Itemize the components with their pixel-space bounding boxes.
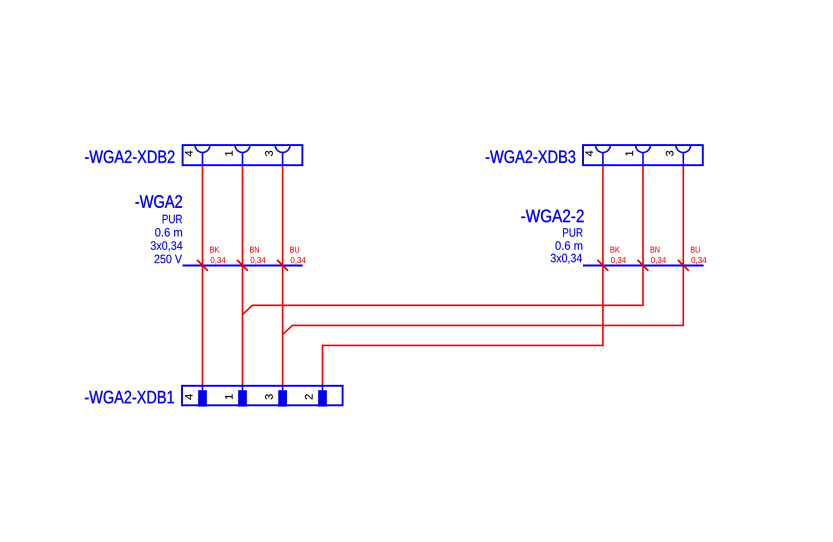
pin number 4 of -WGA2-XDB2 <box>185 151 193 157</box>
wire colour label BU of -WGA2 <box>290 247 299 253</box>
terminal 1 of -WGA2-XDB1 <box>238 386 247 407</box>
cable -WGA2 spec PUR <box>163 215 182 224</box>
cable crossing slash on wire BN of -WGA2 <box>237 260 248 271</box>
pin 3 of -WGA2-XDB3 (socket symbol) <box>676 145 691 165</box>
cable -WGA2 spec length 0.6 m <box>155 228 182 237</box>
wire BN of cable -WGA2-2 (XDB3:1 joining to XDB1:1) <box>243 165 644 314</box>
terminal 2 of -WGA2-XDB1 <box>318 386 327 407</box>
cable crossing slash on wire BU of -WGA2 <box>277 260 288 271</box>
wire gauge label 0,34 (BK of -WGA2) <box>211 257 226 264</box>
cable crossing slash on wire BK of -WGA2 <box>197 260 208 271</box>
pin number 4 of -WGA2-XDB3 <box>585 151 593 157</box>
wire gauge label 0,34 (BN of -WGA2) <box>251 257 266 264</box>
connector -WGA2-XDB3 label <box>486 150 576 163</box>
cable -WGA2 line <box>183 265 303 267</box>
pin 4 of -WGA2-XDB2 (socket symbol) <box>195 145 210 165</box>
terminal number 3 of -WGA2-XDB1 <box>265 394 273 399</box>
wire gauge label 0,34 (BU of -WGA2) <box>291 257 306 264</box>
wire colour label BN of -WGA2 <box>250 247 259 253</box>
pin 4 of -WGA2-XDB3 (socket symbol) <box>596 145 611 165</box>
cable -WGA2 spec 3x0,34 <box>151 241 183 251</box>
connector -WGA2-XDB3 outline <box>583 145 703 165</box>
wire BK of cable -WGA2-2 (XDB3:4 to XDB1:2) <box>323 165 603 386</box>
connector -WGA2-XDB2 outline <box>183 145 303 165</box>
pin 1 of -WGA2-XDB3 (socket symbol) <box>636 145 651 165</box>
cable -WGA2-2 spec PUR <box>563 228 582 237</box>
cable -WGA2-2 name label <box>521 210 583 223</box>
cable -WGA2 name label <box>135 195 182 208</box>
pin 1 of -WGA2-XDB2 (socket symbol) <box>235 145 250 165</box>
terminal number 1 of -WGA2-XDB1 <box>225 394 233 399</box>
terminal number 4 of -WGA2-XDB1 <box>185 394 193 400</box>
terminal 4 of -WGA2-XDB1 <box>198 386 207 407</box>
cable -WGA2-2 spec 3x0,34 <box>551 254 582 264</box>
wire BU of cable -WGA2-2 (XDB3:3 joining to XDB1:3) <box>283 165 684 334</box>
pin number 1 of -WGA2-XDB3 <box>626 151 634 156</box>
connector -WGA2-XDB2 label <box>85 150 174 163</box>
wire colour label BK of -WGA2 <box>210 247 219 253</box>
pin number 1 of -WGA2-XDB2 <box>225 151 233 156</box>
wire colour label BK of -WGA2-2 <box>611 247 620 253</box>
wire gauge label 0,34 (BU of -WGA2-2) <box>691 257 706 264</box>
pin 3 of -WGA2-XDB2 (socket symbol) <box>275 145 290 165</box>
wire BK of cable -WGA2 (XDB2:4 to XDB1:4) <box>202 165 204 386</box>
cable -WGA2 spec 250 V <box>155 255 182 264</box>
cable -WGA2-2 spec length 0.6 m <box>555 241 582 250</box>
cable -WGA2-2 line <box>583 265 704 267</box>
wire BN of cable -WGA2 (XDB2:1 to XDB1:1) <box>242 165 244 386</box>
terminal number 2 of -WGA2-XDB1 <box>305 394 313 399</box>
wire gauge label 0,34 (BK of -WGA2-2) <box>611 257 626 264</box>
pin number 3 of -WGA2-XDB3 <box>666 151 674 156</box>
terminal 3 of -WGA2-XDB1 <box>278 386 287 407</box>
cable crossing slash on wire BN of -WGA2-2 <box>638 260 649 271</box>
pin number 3 of -WGA2-XDB2 <box>265 151 273 156</box>
wire colour label BN of -WGA2-2 <box>651 247 660 253</box>
terminal strip -WGA2-XDB1 outline <box>182 386 343 406</box>
cable crossing slash on wire BK of -WGA2-2 <box>597 260 608 271</box>
wire BU of cable -WGA2 (XDB2:3 to XDB1:3) <box>282 165 284 386</box>
wire colour label BU of -WGA2-2 <box>691 247 700 253</box>
wire gauge label 0,34 (BN of -WGA2-2) <box>651 257 666 264</box>
terminal strip -WGA2-XDB1 label <box>85 391 174 404</box>
cable crossing slash on wire BU of -WGA2-2 <box>678 260 689 271</box>
